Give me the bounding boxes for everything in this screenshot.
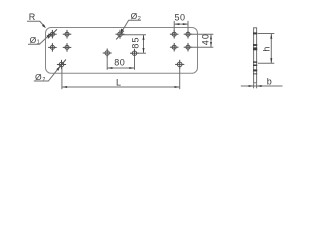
svg-text:Ø: Ø: [131, 11, 138, 21]
hole C2 (80 dim right): [130, 49, 139, 58]
dimension 40 (right, between rows of E group): [191, 33, 214, 47]
hole E1 (top-right group): [170, 30, 179, 39]
hole E3: [170, 43, 179, 52]
hole E4: [184, 43, 193, 52]
svg-text:80: 80: [114, 58, 125, 68]
hole E2: [184, 30, 193, 39]
slash through hole B1: [116, 31, 124, 40]
dimension 85 (vertical, hole B1 to hole C2 row): [123, 35, 147, 54]
svg-text:L: L: [116, 78, 121, 88]
hole D2 (bottom-right): [175, 60, 184, 69]
dimension 50 (top right, between E1 and E2 columns): [174, 12, 188, 31]
dimension b (side view thickness): [241, 77, 283, 89]
hole D1 (bottom-left, ref of Ø2 bottom): [57, 60, 66, 69]
plate outline (top view): [46, 28, 198, 74]
slash through hole D1: [58, 60, 66, 70]
dimension L (between holes D1 and D2): [62, 67, 180, 89]
hole A2: [63, 30, 72, 39]
svg-text:2: 2: [138, 16, 141, 22]
svg-text:R: R: [29, 12, 36, 22]
label Ø2 (bottom) with leader to hole D1: [34, 60, 66, 84]
svg-text:85: 85: [130, 36, 140, 48]
label Ø2 (top) with leader to hole B1: [116, 11, 141, 40]
hole A1 (top-left group): [48, 30, 57, 39]
label R with leader to corner radius: [27, 12, 46, 28]
hole marks in section: [253, 32, 257, 74]
svg-text:2: 2: [42, 77, 45, 83]
svg-text:h: h: [261, 47, 271, 52]
svg-text:40: 40: [200, 33, 210, 45]
hole C1 (80 dim left): [103, 49, 112, 58]
svg-text:b: b: [267, 77, 272, 87]
svg-text:50: 50: [175, 12, 186, 22]
side view plate section: [253, 28, 257, 83]
hole A4: [63, 43, 72, 52]
hole B1 (center top, ref of Ø2 top): [116, 30, 125, 39]
dimension 80 (between holes C1 and C2): [107, 56, 134, 70]
slash through hole A1: [48, 29, 57, 38]
hole A3: [48, 43, 57, 52]
label Ø1 with leader to hole A1: [28, 29, 57, 45]
dimension h (side view height between outer holes): [258, 34, 275, 64]
